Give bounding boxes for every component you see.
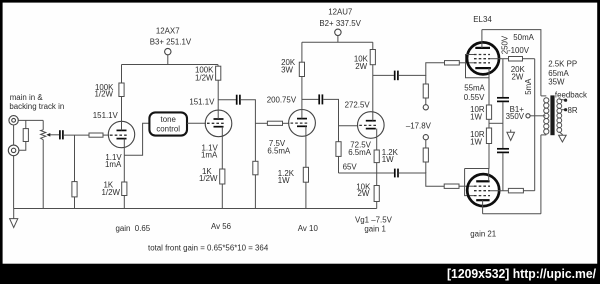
svg-text:151.1V: 151.1V xyxy=(93,111,119,120)
capacitor coupling to upper EL34 xyxy=(395,71,398,81)
wire jack2 bottom to ground rail xyxy=(13,156,15,209)
wire screen column lower xyxy=(502,153,504,191)
svg-text:65V: 65V xyxy=(343,162,358,171)
svg-text:B2+ 337.5V: B2+ 337.5V xyxy=(319,19,361,28)
resistor bias divider upper xyxy=(423,84,428,98)
wire V1a plate resistor to rail xyxy=(121,65,123,84)
wire V1a cathode lead xyxy=(123,139,125,182)
svg-text:control: control xyxy=(156,124,180,133)
svg-text:50mA: 50mA xyxy=(513,33,534,42)
output transformer core xyxy=(550,95,554,135)
svg-text:tone: tone xyxy=(161,115,177,124)
capacitor screen bypass upper xyxy=(497,98,509,102)
wire screen resistor to B1 column xyxy=(523,190,534,192)
wire lower g3 link to plate node xyxy=(465,169,474,196)
resistor 10K 2W tail V2b xyxy=(374,186,379,202)
resistor 10K 2W plate load V2b xyxy=(370,50,375,65)
V2b plate bar xyxy=(366,120,376,122)
lower EL34 g1 dashes xyxy=(474,185,490,187)
wire B2 terminal lead xyxy=(337,36,339,43)
wire lower g2 exit to screen resistor xyxy=(490,190,508,192)
wire test point to lower resistor xyxy=(425,140,427,148)
wire cap to grid column xyxy=(241,100,256,162)
wire grid leak to 65V node xyxy=(338,156,340,173)
triode V1a 12AX7 xyxy=(108,121,134,147)
resistor grid stopper V2a (horizontal) xyxy=(267,121,282,125)
resistor grid stopper V1 (horizontal) xyxy=(89,133,103,137)
svg-text:1/2W: 1/2W xyxy=(195,73,214,82)
svg-text:–17.8V: –17.8V xyxy=(406,122,432,131)
capacitor coupling to lower EL34 xyxy=(395,169,398,178)
triode V2b 12AU7 xyxy=(358,112,385,139)
svg-text:B3+ 251.1V: B3+ 251.1V xyxy=(150,37,192,46)
wire B3 supply rail xyxy=(122,64,218,66)
wire B2 supply rail xyxy=(302,41,373,43)
wire into upper EL34 grid xyxy=(459,62,474,64)
wire B1 terminal to OT center tap xyxy=(530,115,545,117)
wire upper plate lead xyxy=(481,30,483,48)
resistor grid stopper lower EL34 (horizontal) xyxy=(444,184,459,188)
resistor 10R 1W lower xyxy=(486,128,491,144)
lower EL34 plate bar xyxy=(476,180,489,182)
V1b plate bar xyxy=(214,118,224,120)
terminal B1+ xyxy=(526,114,530,118)
ground rail xyxy=(14,208,377,210)
svg-text:35W: 35W xyxy=(548,78,565,87)
output transformer secondary winding xyxy=(557,99,562,133)
resistor bias divider lower xyxy=(423,148,428,162)
svg-text:200.75V: 200.75V xyxy=(267,95,297,104)
wire 1K V1b to ground rail xyxy=(221,184,223,209)
test point upper xyxy=(423,105,428,110)
lower EL34 cathode bar xyxy=(476,199,489,201)
upper EL34 g1 dashes xyxy=(474,62,490,64)
svg-text:1/2W: 1/2W xyxy=(95,90,114,99)
wire B3 terminal lead xyxy=(167,55,169,65)
resistor 1.2K 1W cathode V2a xyxy=(303,167,308,182)
wire cap to upper grid corner xyxy=(399,63,445,76)
svg-text:8R: 8R xyxy=(568,106,578,115)
svg-text:total front gain = 0.65*56*10: total front gain = 0.65*56*10 = 364 xyxy=(148,244,269,253)
jack J2 backing track in xyxy=(8,145,19,156)
V2a grid dashes xyxy=(291,122,309,124)
pentode upper EL34 xyxy=(467,42,499,74)
svg-text:55mA: 55mA xyxy=(464,83,485,92)
svg-text:Av 10: Av 10 xyxy=(298,224,319,233)
wire secondary bottom to ground xyxy=(560,132,563,135)
wire grid branch V2a xyxy=(255,122,267,124)
wire screen column middle xyxy=(502,102,504,148)
tone control box xyxy=(149,112,187,135)
V1b cathode bar xyxy=(214,126,224,128)
svg-text:1W: 1W xyxy=(382,155,394,164)
wire lower plate node horizontal xyxy=(465,168,490,170)
pot wiper arrow xyxy=(46,133,59,137)
wire B1 column vertical xyxy=(534,59,536,191)
wire upper plate top run xyxy=(482,30,541,96)
resistor 1K 1/2W cathode V1a xyxy=(122,182,127,196)
svg-text:EL34: EL34 xyxy=(473,15,492,24)
resistor grid stopper upper EL34 (horizontal) xyxy=(445,61,460,65)
svg-text:gain 1: gain 1 xyxy=(364,225,386,234)
wire into V1a grid xyxy=(103,134,109,136)
potentiometer volume xyxy=(41,120,46,208)
upper EL34 g3 dashes xyxy=(474,54,490,56)
resistor 100K 1/2W plate load V1a xyxy=(119,83,124,97)
wire jack sleeves vertical xyxy=(13,125,15,145)
V1b grid dashes xyxy=(207,122,225,124)
node 8R dot xyxy=(564,108,567,111)
wire cap to grid resistor xyxy=(64,134,89,136)
terminal B2+ xyxy=(335,29,341,35)
wire lower plate lead xyxy=(488,169,490,182)
capacitor screen bypass lower xyxy=(497,149,509,153)
wire V2a plate tap to coupling cap xyxy=(302,98,319,100)
frame border left xyxy=(0,0,3,266)
svg-text:151.1V: 151.1V xyxy=(189,97,215,106)
output transformer primary winding xyxy=(541,96,549,135)
svg-text:feedback: feedback xyxy=(555,91,587,100)
wire cap to V2b grid column xyxy=(323,99,338,141)
wire 20K to B1 column xyxy=(523,58,535,60)
wire between 10R resistors xyxy=(488,119,490,128)
ground symbol left xyxy=(10,209,18,228)
svg-text:350V: 350V xyxy=(506,112,525,121)
watermark bar xyxy=(0,264,600,284)
V2b grid dashes xyxy=(359,124,377,126)
svg-text:2.5K PP: 2.5K PP xyxy=(548,59,577,68)
resistor 1.2K 1W cathode V2b xyxy=(374,150,379,163)
wire V2b plate tap to upper coupling cap xyxy=(373,74,394,76)
V2b cathode bar xyxy=(366,128,376,130)
wire secondary top feedback tap xyxy=(560,98,566,101)
capacitor coupling V1b-V2a xyxy=(237,95,240,105)
wire jack1 tip to pot xyxy=(18,119,43,121)
ground symbol secondary xyxy=(559,135,567,142)
ground symbol B1 xyxy=(507,130,515,141)
resistor 20K 3W plate load V2a xyxy=(299,62,304,76)
wire 65V node horizontal xyxy=(339,172,395,174)
svg-text:272.5V: 272.5V xyxy=(345,101,371,110)
svg-text:3W: 3W xyxy=(281,66,293,75)
svg-text:2W: 2W xyxy=(355,62,367,71)
terminal B3+ xyxy=(165,48,171,54)
wire into V2a grid xyxy=(283,122,290,124)
svg-text:6.5mA: 6.5mA xyxy=(348,148,372,157)
wire V2b cathode lead xyxy=(376,129,378,150)
svg-text:1/2W: 1/2W xyxy=(102,188,121,197)
frame border right xyxy=(597,0,600,266)
test point lower xyxy=(423,135,428,140)
lower EL34 g3 dashes xyxy=(474,195,490,197)
svg-text:1W: 1W xyxy=(470,137,482,146)
wire upper cathode lead xyxy=(488,68,490,105)
wire secondary 8R tap xyxy=(562,109,565,111)
wire upper g3 link to cathode xyxy=(466,55,490,78)
svg-text:1W: 1W xyxy=(470,112,482,121)
wire upper g2 exit xyxy=(490,58,503,60)
wire V2a cathode lead xyxy=(305,126,307,167)
svg-text:0.55V: 0.55V xyxy=(464,93,485,102)
wire lower cathode to OT bottom xyxy=(483,213,541,215)
pentode lower EL34 xyxy=(467,174,499,206)
svg-text:1mA: 1mA xyxy=(105,160,122,169)
svg-text:1W: 1W xyxy=(278,176,290,185)
upper EL34 g2 dashes xyxy=(474,58,490,60)
resistor input mix (between jack tips) xyxy=(19,120,28,150)
svg-text:2W: 2W xyxy=(512,72,524,81)
node feedback dot xyxy=(564,99,567,102)
wire tone control to V2 grid xyxy=(187,122,206,124)
upper EL34 plate bar xyxy=(475,47,490,49)
wire plate tap to coupling cap xyxy=(218,99,236,101)
triode V1b 12AX7 xyxy=(205,110,232,137)
wire V1b cathode lead xyxy=(221,127,223,169)
wire 20K to B2 rail xyxy=(301,42,303,62)
svg-text:6.5mA: 6.5mA xyxy=(267,147,291,156)
svg-text:5mA: 5mA xyxy=(524,78,533,95)
resistor grid leak V2a xyxy=(253,161,258,175)
wire V1b plate lead xyxy=(217,80,219,119)
wire 1K to ground rail xyxy=(123,196,125,209)
V1a grid dashes xyxy=(110,134,128,136)
wire screen col to 20K xyxy=(503,58,509,60)
wire V2b plate lead xyxy=(372,65,374,121)
capacitor coupling V2a-V2b xyxy=(319,94,322,104)
wire resistor to test point xyxy=(425,98,427,105)
lower EL34 g2 dashes xyxy=(474,190,490,192)
wire cathode tap to tone control xyxy=(124,123,149,155)
svg-text:gain 21: gain 21 xyxy=(470,229,496,238)
jack J1 main in xyxy=(9,116,18,125)
resistor 100K 1/2W plate load V1b xyxy=(216,66,221,80)
V1a cathode bar xyxy=(117,138,127,140)
wire 1.2K to ground rail xyxy=(305,182,307,208)
svg-text:12AX7: 12AX7 xyxy=(156,26,180,35)
wire cap to lower grid corner xyxy=(399,173,444,186)
svg-text:1/2W: 1/2W xyxy=(199,174,218,183)
resistor 1K 1/2W cathode V1b xyxy=(220,169,225,184)
svg-text:-100V: -100V xyxy=(508,46,530,55)
resistor 20K 2W screen feed (horizontal) xyxy=(509,57,523,62)
svg-text:Vg1 –7.5V: Vg1 –7.5V xyxy=(355,215,393,224)
svg-text:backing track in: backing track in xyxy=(9,102,64,111)
wire grid leak to rail xyxy=(254,175,256,209)
resistor screen feed lower (horizontal) xyxy=(508,188,523,193)
resistor grid leak V2b xyxy=(336,142,341,157)
svg-text:12AU7: 12AU7 xyxy=(328,8,352,17)
upper EL34 cathode bar xyxy=(475,67,491,69)
wire rail to 100K xyxy=(217,65,219,67)
wire lower cathode lead xyxy=(482,200,484,214)
wire screen column upper xyxy=(502,59,504,97)
V2a plate bar xyxy=(297,118,307,120)
wire V2a plate lead xyxy=(301,77,303,119)
svg-text:gain 0.65: gain 0.65 xyxy=(116,224,151,233)
frame border top xyxy=(0,0,600,3)
wire output tap to screen column xyxy=(489,122,503,124)
wire V1a plate lead xyxy=(121,97,123,131)
wire into lower EL34 grid xyxy=(459,185,474,187)
wire divider to 65V coupling junction xyxy=(425,162,427,173)
svg-text:[1209x532] http://upic.me/: [1209x532] http://upic.me/ xyxy=(447,266,596,281)
wire grid branch V2b xyxy=(339,125,359,127)
V2a cathode bar xyxy=(297,125,307,127)
V1a plate bar xyxy=(117,129,127,131)
svg-text:1mA: 1mA xyxy=(201,151,218,160)
capacitor input coupling xyxy=(60,130,63,139)
resistor grid leak V1 (to ground) xyxy=(72,135,77,208)
triode V2a 12AU7 xyxy=(289,110,316,137)
svg-text:2W: 2W xyxy=(358,189,370,198)
wire rail to 10K xyxy=(372,42,374,49)
svg-text:Av 56: Av 56 xyxy=(211,222,232,231)
wire divider upper lead xyxy=(425,75,427,84)
wire cathode resistor to 10K tail xyxy=(376,163,378,186)
wire 10K tail to ground rail end xyxy=(376,202,378,209)
resistor 10R 1W upper xyxy=(486,105,491,119)
wire OT primary bottom to lower cathode run xyxy=(540,135,542,214)
wire 10R chain down to lower plate node xyxy=(488,144,490,169)
